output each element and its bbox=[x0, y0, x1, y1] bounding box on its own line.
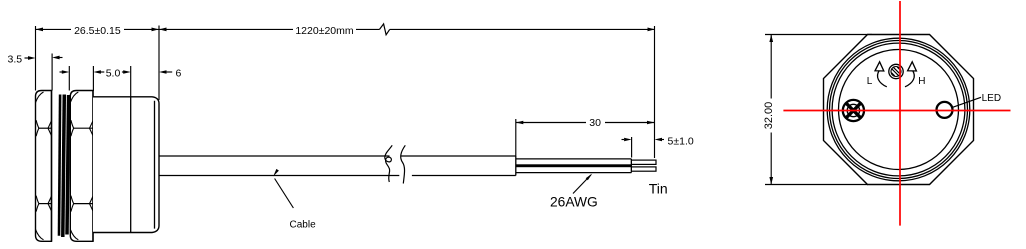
extension line x=52.1 bbox=[51, 54, 53, 91]
lock washer bbox=[59, 95, 60, 236]
bezel circle outer bbox=[827, 38, 970, 181]
extension tick x=631.6 bbox=[631, 137, 633, 158]
dim 26.5 left arrow bbox=[36, 28, 44, 32]
dim 5.0 left arrow bbox=[93, 70, 101, 74]
svg-text:Cable: Cable bbox=[290, 220, 317, 231]
svg-text:6: 6 bbox=[175, 67, 181, 79]
dim arrow at x=69.3 bbox=[60, 71, 63, 73]
sensor body bbox=[93, 97, 159, 233]
arrow L (curved) bbox=[878, 71, 887, 87]
extension line x=93.4 bbox=[92, 66, 94, 91]
dim 5±1.0 right arrow bbox=[655, 138, 663, 142]
svg-text:26.5±0.15: 26.5±0.15 bbox=[74, 25, 121, 37]
svg-text:Tin: Tin bbox=[649, 180, 668, 196]
dim 32.00 line bbox=[770, 35, 772, 99]
dim 1220 left arrow bbox=[159, 28, 167, 32]
dim 30 right arrow bbox=[647, 121, 655, 125]
arrow H (curved) bbox=[905, 71, 914, 87]
cable section left of break bbox=[159, 155, 390, 157]
extension line x=130.7 bbox=[130, 66, 132, 97]
wire 2 (bottom) bbox=[516, 172, 632, 174]
svg-text:32.00: 32.00 bbox=[763, 102, 775, 130]
bezel circle inner bbox=[832, 43, 965, 176]
dim 6 arrow bbox=[159, 70, 167, 74]
body joint line bbox=[130, 97, 132, 233]
wire insulation gap band bbox=[516, 164, 632, 167]
dim 5.0 right arrow bbox=[122, 71, 125, 73]
extension line x=69.3 bbox=[68, 66, 70, 91]
svg-text:5±1.0: 5±1.0 bbox=[668, 135, 694, 147]
octagon housing bbox=[824, 35, 974, 185]
extension line x=515.8 bbox=[515, 119, 517, 156]
extension line x=35.5 bbox=[35, 26, 37, 91]
extension line bottom (32.00) bbox=[765, 184, 868, 186]
svg-text:H: H bbox=[918, 76, 925, 87]
cable section right of break bbox=[401, 155, 516, 157]
svg-text:26AWG: 26AWG bbox=[550, 195, 598, 210]
hex nut 1 (clamp nut) bbox=[36, 91, 52, 242]
red center line horizontal bbox=[783, 110, 1010, 112]
cable break squiggle 1 bbox=[385, 145, 392, 182]
extension line x=654.5 bbox=[654, 26, 656, 158]
dim 5±1.0 left arrow bbox=[622, 139, 625, 141]
dim 26.5 right arrow bbox=[152, 28, 160, 32]
dim 30 line bbox=[516, 122, 586, 124]
dim 32.00 down arrow bbox=[769, 177, 773, 185]
adjust screw inner ring bbox=[891, 67, 901, 77]
svg-text:30: 30 bbox=[589, 117, 601, 129]
mounting screw (cross) bbox=[843, 100, 864, 121]
tinned end 1 bbox=[631, 160, 656, 164]
dim 1220 right arrow bbox=[648, 28, 656, 32]
svg-text:5.0: 5.0 bbox=[106, 67, 121, 79]
dim 32.00 up arrow bbox=[769, 35, 773, 43]
LED indicator bbox=[937, 102, 953, 118]
extension line top (32.00) bbox=[765, 34, 872, 36]
hex nut 2 bbox=[70, 91, 93, 242]
dim 30 left arrow bbox=[516, 121, 524, 125]
dim 3.5 second arrow bbox=[56, 57, 63, 59]
svg-text:3.5: 3.5 bbox=[7, 53, 22, 65]
svg-text:LED: LED bbox=[982, 93, 1001, 104]
LED leader bbox=[953, 97, 981, 107]
wire 1 (top) bbox=[516, 158, 632, 160]
red center line vertical bbox=[899, 1, 901, 226]
face circle bbox=[839, 50, 959, 170]
dim 1220 line bbox=[159, 28, 293, 30]
cable break squiggle 2 bbox=[401, 145, 406, 183]
body chamfer edge line bbox=[154, 101, 156, 229]
svg-text:1220±20mm: 1220±20mm bbox=[295, 25, 354, 37]
dim 1220 break zigzag bbox=[380, 24, 390, 35]
dim 3.5 arrow+tail bbox=[25, 57, 30, 59]
cable leader bbox=[275, 179, 294, 209]
adjust screw slot bbox=[891, 69, 899, 77]
tinned end 2 bbox=[631, 167, 656, 171]
adjust screw outer ring bbox=[889, 64, 903, 78]
extension line x=159 bbox=[158, 26, 160, 101]
svg-text:L: L bbox=[867, 76, 873, 87]
dim 26.5±0.15 line bbox=[36, 28, 72, 30]
26AWG leader bbox=[573, 175, 591, 194]
bezel circle middle bbox=[830, 41, 968, 179]
